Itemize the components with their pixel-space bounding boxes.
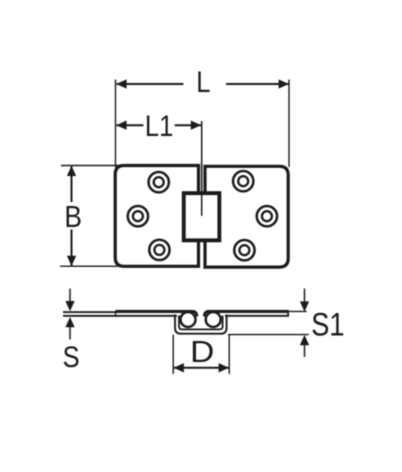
svg-text:L1: L1 [145, 109, 173, 142]
svg-text:S: S [63, 340, 80, 373]
svg-text:D: D [190, 334, 214, 369]
svg-text:S1: S1 [311, 308, 344, 344]
svg-text:L: L [196, 65, 210, 98]
svg-text:B: B [64, 200, 82, 234]
